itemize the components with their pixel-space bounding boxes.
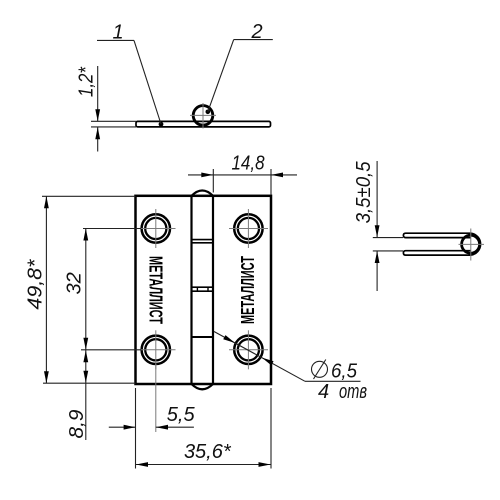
knuckle circle (rolled pin, side view) [193, 106, 213, 126]
svg-text:2: 2 [250, 21, 262, 43]
hole bottom-left [142, 336, 170, 364]
svg-text:5,5: 5,5 [167, 404, 196, 426]
dimension 8,9 [66, 350, 88, 440]
logo text right leaf [238, 256, 258, 324]
extension lines for 1,2 dimension [91, 121, 136, 127]
main view: hinge plate outline [136, 196, 272, 384]
hole top-right center lines [229, 209, 268, 248]
top view: hinge leaf plate (side view) [136, 121, 271, 127]
dimension 14,8 [188, 153, 297, 196]
side view (folded): bottom leaf [403, 251, 470, 255]
knuckle joint lower [192, 336, 214, 338]
dimension 35,6* [136, 388, 272, 469]
hole top-right [234, 214, 262, 242]
svg-text:МЕТАЛЛИСТ: МЕТАЛЛИСТ [238, 256, 258, 324]
hole bottom-left center lines [140, 330, 176, 369]
svg-text:4: 4 [318, 381, 329, 403]
hole diameter callout leader [214, 332, 361, 382]
dimension 1,2* [76, 66, 101, 152]
barrel bottom dome [192, 384, 214, 389]
callout text 4 otv [318, 381, 367, 403]
svg-text:8,9: 8,9 [66, 410, 88, 439]
svg-text:49,8*: 49,8* [25, 258, 47, 309]
barrel right edge [212, 196, 214, 384]
svg-text:14,8: 14,8 [232, 153, 265, 175]
svg-text:3,5±0,5: 3,5±0,5 [353, 161, 375, 224]
svg-text:1,2*: 1,2* [76, 66, 98, 97]
svg-text:МЕТАЛЛИСТ: МЕТАЛЛИСТ [145, 256, 165, 324]
knuckle joint middle with pin [192, 287, 214, 291]
side view pin circle [462, 235, 480, 253]
svg-text:отв: отв [339, 381, 367, 403]
hole bottom-right [234, 336, 262, 364]
hole top-left [142, 214, 170, 242]
knuckle center lines [190, 103, 216, 129]
svg-text:35,6*: 35,6* [184, 441, 232, 463]
barrel left edge [190, 196, 192, 384]
side view (folded): top leaf [403, 233, 470, 237]
hole top-left center lines [140, 209, 176, 248]
svg-text:6,5: 6,5 [331, 361, 358, 383]
svg-text:32: 32 [64, 272, 86, 294]
side view knuckle center lines [459, 229, 485, 261]
diameter symbol [312, 360, 328, 380]
knuckle joint upper [192, 240, 214, 243]
dimension 32 [64, 229, 142, 350]
dimension 5,5 [109, 364, 196, 432]
svg-text:1: 1 [112, 22, 123, 44]
side view outer curl [471, 233, 481, 255]
callout text 6,5 [331, 361, 358, 383]
hole bottom-right center lines [229, 330, 268, 369]
logo text left leaf [145, 256, 165, 324]
leader 1 (to leaf) [97, 22, 163, 127]
barrel top dome [192, 191, 214, 196]
extension lines for 3,5 dimension [373, 238, 403, 251]
dimension 49,8* [25, 196, 136, 383]
dimension 3,5±0,5 [353, 161, 380, 291]
leader 2 (to pin) [206, 21, 273, 114]
